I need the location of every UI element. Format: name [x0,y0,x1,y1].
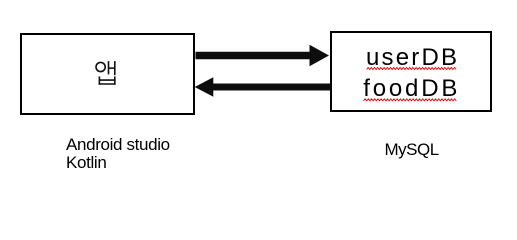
box App (left rectangle) [20,33,195,115]
spellcheck squiggle under foodDB [364,99,457,101]
spellcheck squiggle under userDB [367,68,457,70]
hangul glyph 앱 (App) drawn as strokes [96,61,116,85]
label userDB [366,46,459,70]
caption Android studio Kotlin [66,136,170,171]
arrow app to DB (thick right-pointing) [196,45,330,66]
caption MySQL [385,141,439,159]
label foodDB [363,77,460,101]
arrow DB to app (thick left-pointing) [195,77,332,96]
box Database (right rectangle) [330,31,492,112]
